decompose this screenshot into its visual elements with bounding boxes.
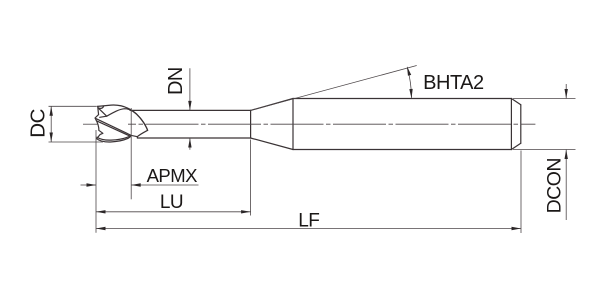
DCON bottom extension line [513, 149, 576, 151]
LU arrow left [96, 210, 106, 213]
svg-text:DC: DC [27, 108, 50, 137]
shank bottom line [293, 149, 511, 151]
svg-text:DN: DN [165, 67, 187, 95]
LF extension line right [520, 151, 522, 234]
shank top line [293, 98, 511, 100]
LU arrow right [241, 210, 251, 213]
DCON arrow down [565, 89, 568, 99]
svg-text:DCON: DCON [543, 158, 565, 213]
neck bottom line [137, 137, 250, 139]
DN arrow down [188, 101, 191, 111]
LU extension line at taper start [250, 140, 252, 216]
APMX arrow left [131, 183, 141, 186]
DC dimension line [50, 106, 52, 142]
bottom flute silhouette outer [97, 136, 131, 142]
BHTA2 arc arrow lower [409, 89, 412, 99]
head left edge with end teeth [95, 106, 103, 138]
shank end chamfer top [511, 99, 520, 105]
LU dimension line [96, 211, 251, 213]
end tooth face triangle [98, 108, 107, 117]
APMX extension line at flute end [130, 108, 132, 199]
taper top edge [251, 99, 293, 111]
neck top line [130, 109, 251, 111]
cutting edge sliver line 2 [96, 121, 130, 137]
bottom flute silhouette inner [97, 136, 131, 140]
BHTA2 angle arc [407, 67, 411, 98]
taper start vertical [250, 110, 252, 138]
DC arrow up [50, 106, 53, 116]
sliver tail to neck [131, 135, 137, 136]
cutting head top edge and flute sweep curve A [98, 105, 148, 130]
centerline [83, 123, 535, 125]
BHTA2 angle reference line [251, 66, 417, 111]
shank chamfer start vertical [510, 99, 512, 150]
DC arrow down [50, 133, 53, 143]
DN dimension line upper [189, 68, 191, 110]
cutting edge sliver line 1 [96, 118, 132, 135]
DCON dimension line upper [565, 84, 567, 99]
DCON top extension line [513, 98, 576, 100]
flute runout return curve [137, 130, 147, 138]
svg-text:BHTA2: BHTA2 [423, 72, 484, 94]
DC top extension line [49, 105, 97, 107]
shank start vertical [292, 99, 294, 150]
APMX dimension line left tail [81, 184, 97, 186]
DN arrow up [188, 138, 191, 148]
APMX arrow right [87, 183, 97, 186]
taper bottom edge [251, 138, 293, 150]
svg-text:APMX: APMX [147, 165, 198, 186]
tip extension line for APMX LU LF [95, 130, 97, 233]
LF dimension line [96, 228, 521, 230]
DCON dimension line lower [565, 150, 567, 221]
BHTA2 arc arrow upper [407, 66, 411, 76]
LF arrow right [512, 227, 522, 230]
svg-text:LU: LU [160, 192, 183, 213]
shank end chamfer bottom [511, 143, 520, 149]
LF arrow left [96, 227, 106, 230]
DN dimension line lower [189, 138, 191, 150]
APMX dimension line right tail [131, 184, 198, 186]
DC bottom extension line [49, 141, 104, 143]
gash curl at tip [99, 107, 104, 109]
shank end right edge [520, 105, 522, 143]
DCON arrow up [565, 150, 568, 160]
svg-text:LF: LF [298, 211, 319, 232]
flute sweep curve B (helix edge arching from tooth tip) [107, 109, 148, 131]
